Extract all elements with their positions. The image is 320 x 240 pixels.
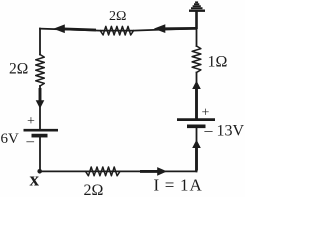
wire left side [39, 29, 41, 55]
current arrow left side (pointing down) [36, 88, 45, 109]
svg-text:+: + [27, 114, 35, 129]
svg-text:I = 1A: I = 1A [154, 176, 203, 195]
wire right side middle (resistor to battery) [196, 73, 198, 120]
svg-text:– 13V: – 13V [204, 123, 245, 140]
wire right side upper (top corner to resistor) [196, 28, 198, 46]
current arrow top-right (pointing left) [154, 24, 196, 33]
svg-text:+: + [202, 106, 210, 121]
svg-text:2Ω: 2Ω [9, 61, 28, 78]
battery 6V (left) [24, 130, 59, 135]
node x (junction dot, bottom-left corner) [37, 169, 42, 174]
current arrow top-left (pointing left) [53, 24, 96, 33]
wire top side [40, 28, 197, 30]
current arrow right side lower (pointing up) [192, 140, 201, 171]
wire bottom side [40, 170, 197, 172]
svg-text:–: – [26, 134, 35, 150]
resistor 2Ω left [36, 55, 45, 87]
current arrow right side upper (pointing up) [192, 81, 201, 119]
wire left battery to corner [39, 136, 41, 172]
svg-text:2Ω: 2Ω [109, 9, 126, 24]
resistor 2Ω bottom [86, 167, 121, 176]
current arrow bottom (pointing right) [140, 167, 167, 176]
svg-text:1Ω: 1Ω [208, 54, 228, 71]
svg-text:2Ω: 2Ω [84, 182, 104, 197]
resistor 1Ω right [192, 46, 201, 73]
battery 13V (right) [177, 120, 215, 127]
resistor 2Ω top [100, 26, 133, 35]
ground (top right) [189, 2, 205, 29]
wire left side lower [39, 86, 41, 130]
wire right side lower (battery to bottom corner) [196, 127, 198, 172]
svg-text:6V: 6V [1, 131, 20, 147]
svg-text:x: x [30, 170, 40, 191]
